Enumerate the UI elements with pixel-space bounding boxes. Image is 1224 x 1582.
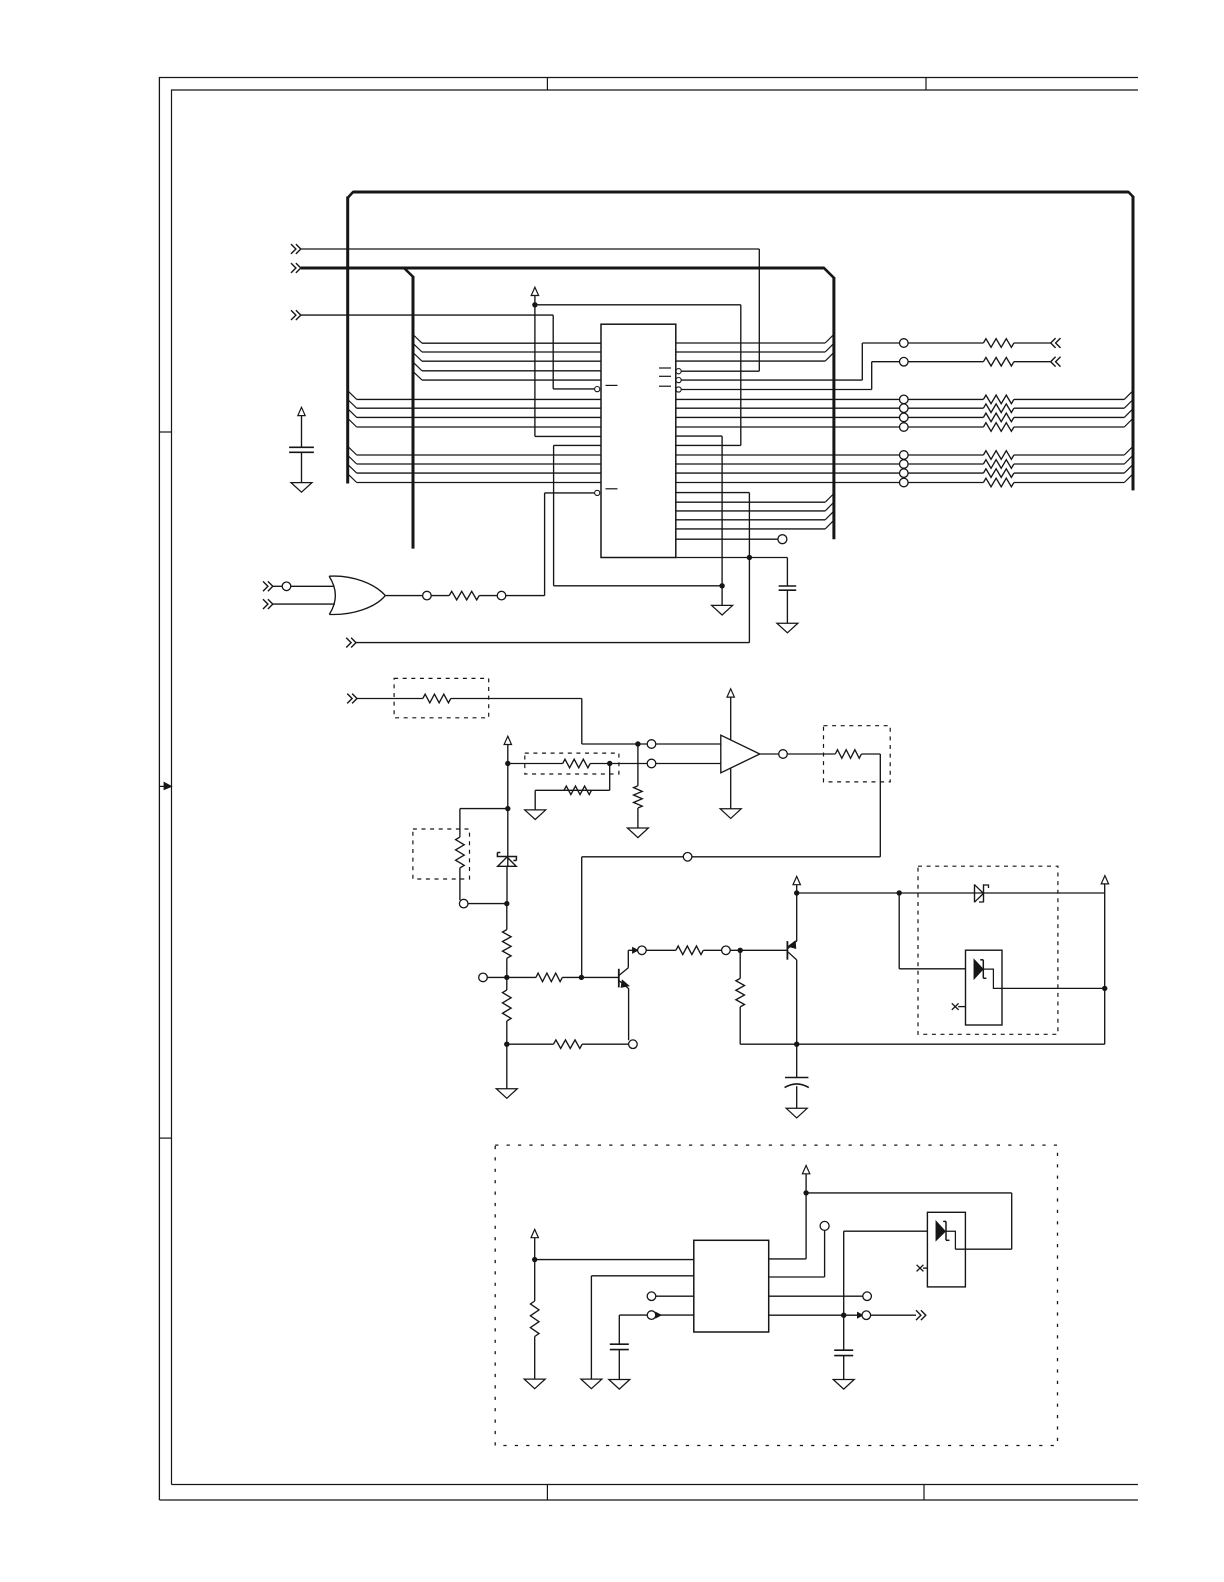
bus A merge diagonal B3 — [1124, 464, 1133, 473]
wire col b — [646, 949, 676, 951]
resistor R4 — [423, 694, 451, 703]
VCC arrow top — [531, 287, 538, 295]
wire A3b — [908, 416, 983, 418]
resistor R15 — [736, 978, 745, 1007]
wire fb drop — [879, 754, 881, 857]
resistor RA2 — [983, 404, 1013, 413]
bus A left corner chamfer — [348, 192, 354, 198]
wire to U1 pin bubble — [553, 388, 594, 390]
wire vcc pin U1 left — [535, 435, 601, 437]
wire tap left — [460, 808, 508, 810]
pin circle B1 — [900, 451, 909, 460]
wire col c — [703, 949, 721, 951]
node Q2 base divider — [738, 948, 743, 953]
wire U3 vcc — [730, 697, 732, 740]
U1 left bubble pin B — [595, 490, 600, 495]
wire U1 right row A1 — [676, 398, 900, 400]
wire data bus row L5 — [422, 379, 601, 381]
wire pulldown drop — [637, 744, 639, 786]
wire R7 gnd drop — [534, 790, 536, 810]
bus B tap diagonal L4 — [413, 362, 422, 371]
resistor RA4 — [983, 423, 1013, 432]
VCC arrow opto — [1101, 876, 1108, 884]
wire A4c — [1014, 426, 1124, 428]
frame left tick 2 — [159, 1137, 171, 1139]
wire R16 bottom — [534, 1337, 536, 1380]
wire psu2 drop — [1011, 1193, 1013, 1249]
ground pin2 — [581, 1379, 602, 1389]
pin circle B2 — [900, 460, 909, 469]
opto U6 body — [927, 1212, 965, 1287]
wire enable to bubble — [545, 492, 595, 494]
wire R10 out — [562, 976, 618, 978]
wire ref stub — [507, 745, 509, 764]
Q2 collector drop — [796, 960, 798, 1044]
wire U1 out 380 — [681, 379, 862, 381]
Q2 emitter riser — [796, 893, 798, 941]
wire C4 drop — [618, 1315, 620, 1344]
wire vcc pin U1 right — [676, 444, 741, 446]
pin circle tp — [820, 1221, 829, 1230]
pin circle B4 — [900, 478, 909, 487]
wire zener bottom — [506, 866, 508, 903]
wire data bus row L1 — [422, 342, 601, 344]
pin circle row539 — [778, 535, 787, 544]
capacitor C1 — [289, 446, 314, 448]
wire R7 row — [535, 789, 591, 791]
ground C3 — [786, 1108, 807, 1118]
opto U6 LED — [936, 1221, 945, 1240]
pin circle row343 — [900, 339, 909, 348]
wire row 361 — [872, 361, 900, 363]
Q2 emitter diagonal — [788, 941, 797, 949]
wire ref row a — [508, 763, 563, 765]
node ref junction — [505, 761, 510, 766]
resistor R5 — [634, 786, 643, 808]
wire opto2 anode — [844, 1230, 928, 1232]
pin circle Q1 col — [638, 946, 647, 955]
wire input 8b — [451, 698, 582, 700]
wire R16 top — [534, 1260, 536, 1301]
wire B4b — [908, 482, 983, 484]
U1 right bubble pin 2 — [676, 378, 681, 383]
wire A2b — [908, 407, 983, 409]
wire input 5 — [273, 585, 283, 587]
node base divider — [504, 975, 509, 980]
bus A tap diagonal M2 — [348, 455, 357, 464]
wire R11 top — [506, 977, 508, 990]
input 6 arrow — [263, 599, 268, 609]
wire C2 bottom — [786, 590, 788, 623]
resistor R8 — [456, 837, 465, 868]
U1 left bubble pin A — [595, 387, 600, 392]
dashed box R12 — [824, 726, 891, 782]
VCC arrow ref — [504, 736, 511, 744]
wire input 8a — [357, 698, 423, 700]
pin circle OR out 2 — [497, 591, 506, 600]
bus A merge diagonal A2 — [1124, 400, 1133, 409]
wire to R10 — [507, 976, 536, 978]
bus A tap diagonal M1 — [348, 446, 357, 455]
bus A tap diagonal L2 — [348, 400, 357, 409]
capacitor C4 — [610, 1343, 629, 1345]
bus B tap diagonal L3 — [413, 353, 422, 362]
wire R11 bottom — [506, 1021, 508, 1089]
bus A merge diagonal A3 — [1124, 409, 1133, 418]
wire psu2 row — [806, 1192, 1012, 1194]
wire R1 out — [479, 595, 497, 597]
wire B1b — [908, 454, 983, 456]
wire data bus row L2 — [422, 351, 601, 353]
wire U1 out 371 — [681, 370, 759, 372]
frame outer border — [159, 78, 1138, 1501]
resistor R7 — [564, 786, 591, 795]
wire addr bus row L3 — [357, 416, 601, 418]
wire row 343b — [908, 342, 983, 344]
wire row 343 — [862, 342, 899, 344]
node psu2 — [803, 1190, 808, 1195]
ground U3 — [720, 809, 741, 819]
wire pin to node — [468, 903, 507, 905]
pin circle Q1 emitter — [629, 1040, 638, 1049]
wire collector row — [797, 1043, 1105, 1045]
wire vcc stub — [534, 296, 536, 305]
frame inner border — [172, 90, 1139, 1485]
node comp plus junction — [635, 741, 640, 746]
wire vcc drop right — [1104, 884, 1106, 1044]
Q1 collector riser — [627, 950, 629, 968]
wire C3 bottom — [796, 1086, 798, 1108]
wire input 8 drop — [581, 699, 583, 745]
node emitter row — [504, 1042, 509, 1047]
wire B3b — [908, 472, 983, 474]
ground divider — [496, 1089, 517, 1099]
dotted box R8 — [413, 829, 470, 879]
pin circle Q2 base — [722, 946, 731, 955]
bus B branch chamfer — [405, 269, 414, 278]
wire ref row b — [590, 763, 647, 765]
resistor R14 — [554, 1040, 583, 1049]
input 2 arrow — [291, 263, 296, 273]
wire U1 right row C3 — [676, 519, 825, 521]
wire psu vcc2 riser — [805, 1174, 807, 1259]
wire U1 gnd pin left — [554, 444, 601, 446]
ground R5 — [627, 828, 648, 838]
bus A merge diagonal A4 — [1124, 418, 1133, 427]
resistor R3 — [983, 357, 1013, 366]
wire comp minus — [656, 763, 721, 765]
bus A top horizontal — [353, 191, 1129, 194]
wire B2c — [1014, 463, 1124, 465]
wire U5 pin2 row — [591, 1275, 693, 1277]
wire nc stub — [958, 1006, 965, 1008]
wire A3c — [1014, 416, 1124, 418]
bus A merge diagonal B1 — [1124, 446, 1133, 455]
wire U5 right pin3 — [769, 1295, 863, 1297]
Q2 emitter arrowhead — [788, 941, 795, 948]
wire OR output — [385, 595, 422, 597]
wire input 1 drop — [758, 249, 760, 371]
U1 right bubble pin 3 — [676, 387, 681, 392]
wire R15 row — [740, 1043, 797, 1045]
bus B horizontal (input 2) — [301, 267, 825, 270]
wire addr bus row L1 — [357, 398, 601, 400]
pin circle A4 — [900, 423, 909, 432]
pin circle A3 — [900, 413, 909, 422]
wire base pin — [487, 976, 507, 978]
wire row 361b — [908, 361, 983, 363]
wire U5 right pin4 — [769, 1314, 916, 1316]
dashed box U4 — [918, 866, 1058, 1034]
wire vcc left drop — [534, 305, 536, 437]
wire riser 389-361 — [871, 362, 873, 390]
wire U1 pin 492 — [676, 492, 750, 494]
wire R5 gnd — [637, 808, 639, 828]
bus B merge diagonal T2 — [825, 343, 834, 352]
resistor RB2 — [983, 460, 1013, 469]
pin circle comp minus — [647, 759, 656, 768]
capacitor C2 — [779, 585, 797, 587]
pin circle A1 — [900, 395, 909, 404]
wire addr bus row M3 — [357, 472, 601, 474]
bus A merge diagonal B2 — [1124, 455, 1133, 464]
resistor RB1 — [983, 451, 1013, 460]
node Q2 vcc — [794, 890, 799, 895]
resistor RA3 — [983, 413, 1013, 422]
bus B merge diagonal T1 — [825, 334, 834, 343]
wire OR out — [431, 595, 449, 597]
Q1 collector diagonal — [619, 968, 628, 976]
wire C4 bottom — [618, 1350, 620, 1380]
bus B merge diagonal C2 — [825, 502, 834, 511]
transistor Q1 base bar — [618, 969, 620, 988]
wire data bus row L3 — [422, 360, 601, 362]
wire data bus row L4 — [422, 370, 601, 372]
opto U4 body — [966, 950, 1003, 1025]
bus A left vertical — [346, 197, 349, 484]
wire tap drop — [459, 809, 461, 838]
wire opto2 cathode — [946, 1231, 955, 1249]
wire U1 right row A4 — [676, 426, 900, 428]
wire input 1 — [301, 248, 760, 250]
capacitor C3 plus plate — [785, 1077, 808, 1079]
bus B merge diagonal C3 — [825, 511, 834, 520]
bus A tap diagonal M3 — [348, 464, 357, 473]
wire B4c — [1014, 482, 1124, 484]
pin circle out4 — [862, 1311, 871, 1320]
Q1 emitter diagonal — [619, 981, 628, 989]
pin circle R8 — [459, 899, 468, 908]
wire input 6 to gate — [273, 603, 335, 605]
ground R7 — [525, 810, 546, 820]
wire C5 drop — [843, 1315, 845, 1350]
wire U1 row 539 — [676, 538, 778, 540]
node gnd junction — [719, 583, 724, 588]
arrow pin4 out — [858, 1313, 863, 1318]
wire input 3 — [301, 314, 553, 316]
wire addr bus row M1 — [357, 454, 601, 456]
wire C5 bottom — [843, 1356, 845, 1380]
wire input 4 riser — [748, 493, 750, 643]
wire Q1 collector — [628, 949, 637, 951]
wire U1 right row C4 — [676, 528, 825, 530]
bus A merge diagonal B4 — [1124, 474, 1133, 483]
pin circle U5 pin3 — [647, 1292, 656, 1301]
frame bottom tick 2 — [923, 1485, 925, 1501]
bus B right vertical — [832, 277, 835, 539]
wire opto2 anode riser — [843, 1231, 845, 1315]
wire C1 bottom — [301, 452, 303, 482]
resistor R13 — [676, 946, 703, 955]
wire to Q2 base — [730, 949, 787, 951]
wire gnd drop x553 — [553, 445, 555, 585]
wire U5 pin4 b — [656, 1314, 694, 1316]
pin circle row361 — [900, 357, 909, 366]
node VCC junction — [532, 302, 537, 307]
pin circle fb — [683, 853, 692, 862]
ground C4 — [609, 1380, 630, 1390]
U1 right pin overbar 2 — [659, 375, 671, 377]
wire R12 out — [861, 753, 880, 755]
wire pin2 riser — [824, 1230, 826, 1277]
wire input 4 — [356, 642, 749, 644]
wire U1 right row C2 — [676, 510, 825, 512]
wire U3 out b — [787, 753, 835, 755]
capacitor C3 curved plate — [785, 1084, 809, 1088]
node opto out — [1102, 986, 1107, 991]
node x750 y557 — [747, 555, 752, 560]
ground R16 — [524, 1379, 545, 1389]
bus B merge diagonal C4 — [825, 520, 834, 529]
wire addr bus row L4 — [357, 426, 601, 428]
wire addr bus row M4 — [357, 482, 601, 484]
wire U1 right row B1 — [676, 454, 900, 456]
wire emitter row b — [582, 1043, 628, 1045]
resistor R12 — [835, 750, 861, 759]
wire to R9 — [506, 904, 508, 930]
wire vcc row — [797, 892, 1105, 894]
wire A1c — [1014, 398, 1124, 400]
frame bottom tick 1 — [546, 1485, 548, 1501]
resistor R10 — [536, 973, 562, 982]
dotted box PSU — [495, 1145, 1057, 1445]
bus B tap diagonal L2 — [413, 343, 422, 352]
dashed box R4 — [394, 678, 489, 717]
resistor R1 — [449, 591, 479, 600]
resistor RB3 — [983, 469, 1013, 478]
pin circle OR out 1 — [423, 591, 432, 600]
bus A tap diagonal L3 — [348, 409, 357, 418]
wire U1 right row T1 — [676, 342, 825, 344]
ground C2 — [777, 623, 798, 633]
wire U1 right row B2 — [676, 463, 900, 465]
output arrow psu — [916, 1310, 921, 1320]
TVS D2 — [974, 884, 976, 902]
node fb junction — [579, 975, 584, 980]
frame top tick 1 — [546, 78, 548, 91]
wire addr bus row L2 — [357, 407, 601, 409]
U1 right pin overbar 1 — [659, 367, 671, 369]
node pin4 junction — [841, 1313, 846, 1318]
wire U5 right pin2 — [769, 1276, 825, 1278]
opto U6 nc X — [917, 1265, 924, 1272]
wire U1 right row T2 — [676, 351, 825, 353]
wire U1 right row C1 — [676, 501, 825, 503]
zener D1 — [497, 853, 516, 861]
bus A merge diagonal A1 — [1124, 391, 1133, 400]
pin circle A2 — [900, 404, 909, 413]
wire U5 pin3 — [656, 1295, 694, 1297]
wire gnd horizontal — [554, 585, 723, 587]
wire B3c — [1014, 472, 1124, 474]
wire C2 top — [786, 558, 788, 587]
wire opto cathode — [983, 969, 1104, 988]
ground C1 — [291, 483, 312, 493]
wire U5 pin1 row — [535, 1259, 694, 1261]
frame left arrow marker — [159, 785, 165, 787]
ground U1 — [712, 605, 733, 615]
bus A tap diagonal L1 — [348, 391, 357, 400]
capacitor C5 — [834, 1349, 853, 1351]
node psu vcc — [532, 1257, 537, 1262]
pin circle out3 — [863, 1292, 872, 1301]
wire fb row b — [582, 856, 684, 858]
node tvs left — [897, 890, 902, 895]
arrow pin4 — [656, 1313, 661, 1318]
wire row 361c — [1014, 361, 1051, 363]
input 3 arrow — [291, 310, 296, 320]
wire A2c — [1014, 407, 1124, 409]
wire psu vcc stub — [534, 1238, 536, 1260]
bus A tap diagonal L4 — [348, 418, 357, 427]
VCC arrow psu2 — [802, 1166, 809, 1174]
pin circle U5 pin4 — [647, 1311, 656, 1320]
wire fb drop2 — [581, 857, 583, 978]
input 5 arrow — [263, 581, 268, 591]
VCC arrow Q2 — [793, 876, 800, 884]
pin circle base — [479, 973, 488, 982]
IC U1 body — [601, 324, 676, 557]
input 4 arrow — [346, 638, 351, 648]
wire opto anode drop — [898, 893, 900, 969]
U1 left pin overbar 1 — [606, 384, 618, 386]
transistor Q2 base bar — [786, 941, 788, 960]
bus B tap diagonal L1 — [413, 335, 422, 344]
wire zener top — [507, 764, 509, 867]
pin circle U3 out — [779, 750, 788, 759]
wire input 5 to gate — [291, 585, 335, 587]
Q1 emitter arrowhead — [621, 980, 629, 987]
arrow into circle — [633, 948, 638, 953]
IC U5 body — [694, 1240, 769, 1332]
resistor R2 — [983, 339, 1013, 348]
wire comp plus — [656, 743, 721, 745]
resistor R11 — [503, 990, 512, 1021]
bus B merge diagonal C1 — [825, 494, 834, 503]
wire A1b — [908, 398, 983, 400]
bus A right corner chamfer — [1128, 192, 1133, 198]
Q1 emitter drop — [628, 988, 630, 1040]
OR gate U2 — [329, 576, 335, 614]
frame left tick 1 — [159, 431, 171, 433]
node zener bottom — [504, 901, 509, 906]
wire U1 right row A2 — [676, 407, 900, 409]
Q2 collector diagonal — [788, 952, 797, 960]
resistor R16 — [530, 1301, 539, 1336]
wire emitter row a — [507, 1043, 554, 1045]
wire B1c — [1014, 454, 1124, 456]
wire U1 right row T3 — [676, 360, 825, 362]
